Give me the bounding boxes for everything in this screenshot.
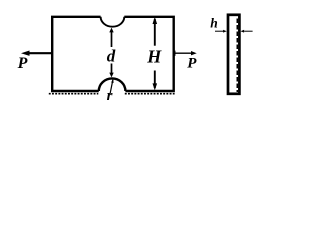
dimension d line lower segment — [111, 64, 113, 75]
svg-text:r: r — [107, 88, 113, 103]
dashed line under bottom edge (right of notch) — [125, 93, 175, 95]
right force arrow P — [174, 52, 192, 54]
dimension H line lower segment — [154, 71, 156, 89]
dashed centerline of side view — [236, 19, 238, 93]
h dimension right arrow — [244, 30, 253, 32]
H upper arrowhead — [153, 17, 158, 24]
svg-text:P: P — [17, 55, 28, 72]
d lower arrowhead — [109, 73, 113, 78]
svg-text:H: H — [146, 47, 162, 67]
dashed line under bottom edge (left of notch) — [49, 93, 99, 95]
svg-text:h: h — [210, 16, 218, 31]
left force arrow P — [28, 52, 52, 54]
top notch arc — [101, 17, 125, 27]
bottom notch arc — [99, 78, 126, 91]
left arrowhead — [21, 51, 30, 56]
plate outline with notches — [52, 17, 174, 91]
svg-text:d: d — [107, 46, 116, 65]
radius pointer line r — [110, 80, 113, 94]
dimension d line upper segment — [111, 31, 113, 48]
d upper arrowhead — [109, 28, 113, 33]
H lower arrowhead — [153, 83, 158, 90]
right arrow tail tick — [174, 51, 176, 56]
r pointer arrowhead — [111, 79, 113, 83]
side view thin rectangle — [228, 15, 239, 94]
h dimension left arrow — [215, 30, 224, 32]
right arrowhead — [191, 51, 197, 55]
dimension H line upper segment — [154, 19, 156, 46]
svg-text:P: P — [187, 55, 197, 71]
